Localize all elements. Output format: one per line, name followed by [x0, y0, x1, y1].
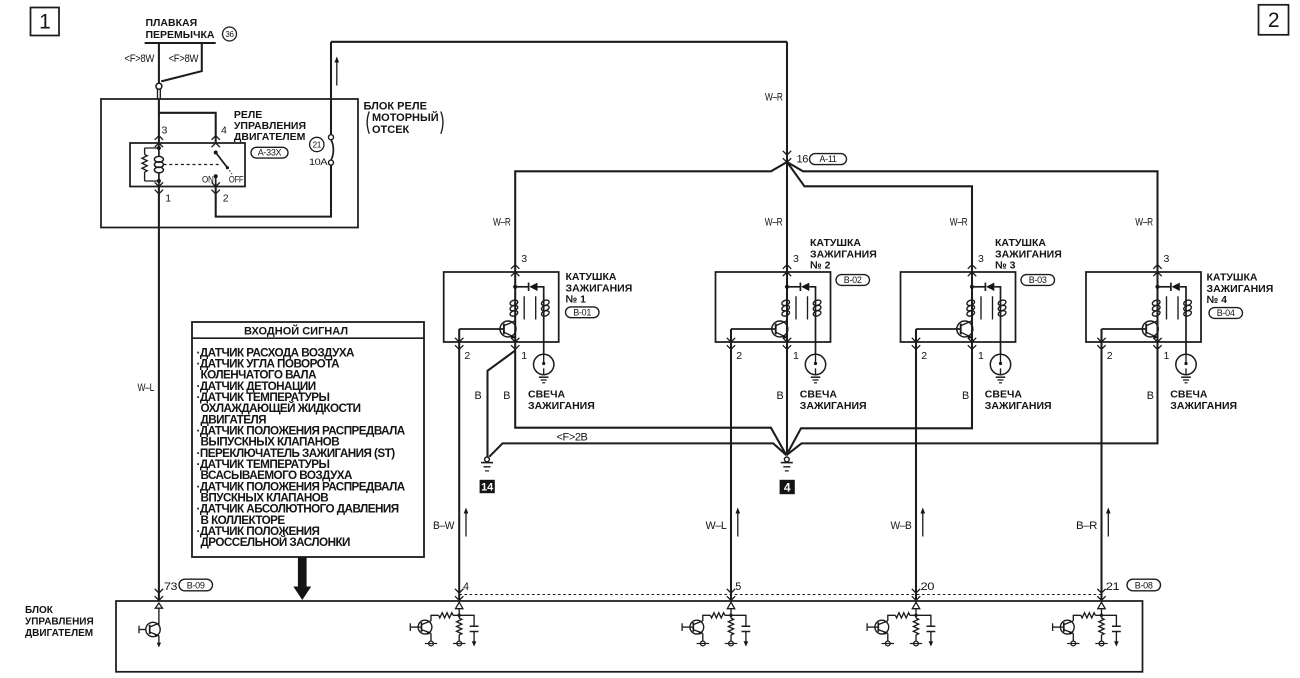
svg-text:W–R: W–R — [493, 217, 511, 229]
svg-text:21: 21 — [312, 140, 321, 150]
coil 3 pin 3 chevrons — [968, 265, 976, 277]
flow arrow W-L wire — [736, 508, 741, 537]
flow arrow B-W wire — [464, 508, 469, 537]
svg-text:W–R: W–R — [765, 91, 783, 103]
page index box 2 — [1259, 5, 1289, 35]
svg-text:2: 2 — [1107, 350, 1113, 362]
svg-text:2: 2 — [223, 193, 229, 205]
svg-text:2: 2 — [1268, 9, 1279, 32]
coil 1 pin 2 chevrons — [455, 338, 463, 350]
svg-text:3: 3 — [162, 124, 168, 136]
svg-text:ДВИГАТЕЛЕМ: ДВИГАТЕЛЕМ — [234, 131, 306, 143]
svg-text:A-33X: A-33X — [258, 148, 282, 158]
svg-text:ПЕРЕМЫЧКА: ПЕРЕМЫЧКА — [146, 29, 215, 41]
wire coil 1 pin 1 to ground bus A — [515, 342, 786, 455]
ECU pin 73 driver transistor — [139, 603, 163, 647]
coil 4 pin 1 chevrons — [1153, 338, 1161, 350]
ignition coil 4 B-04 — [1086, 272, 1201, 342]
coil 1 tag B-01 — [566, 307, 600, 318]
svg-text:B: B — [503, 390, 510, 402]
ECU pin 21 driver cell — [1053, 602, 1121, 646]
svg-text:СВЕЧА: СВЕЧА — [800, 389, 838, 401]
svg-text:1: 1 — [165, 193, 171, 205]
coil 4 tag B-04 — [1209, 308, 1243, 319]
ignition coil 3 B-03 — [901, 272, 1016, 342]
fuse 21 symbol — [329, 135, 334, 140]
wire relay pin 1 to ECU pin 73 — [158, 187, 160, 602]
svg-text:A-11: A-11 — [819, 154, 836, 164]
ECU pin 20 driver cell — [867, 602, 935, 646]
fusible link bus bar — [145, 42, 216, 44]
coil 4 pin 2 chevrons — [1097, 338, 1105, 350]
ECU pin 5 chevrons — [727, 589, 735, 601]
svg-text:МОТОРНЫЙ: МОТОРНЫЙ — [372, 111, 439, 124]
svg-text:W–R: W–R — [1135, 217, 1153, 229]
ECU box — [116, 601, 1143, 672]
svg-text:B–R: B–R — [1076, 520, 1098, 532]
circled 21 fuse number — [310, 137, 324, 151]
svg-text:3: 3 — [978, 253, 984, 265]
ECU pin 5 driver cell — [682, 602, 750, 646]
svg-text:№ 3: № 3 — [995, 260, 1016, 272]
wire coil 2 pin 1 to ground 4 — [786, 342, 788, 455]
coil 1 pin 1 chevrons — [511, 338, 519, 350]
relay pin 2 chevrons — [212, 182, 220, 194]
svg-text:№ 2: № 2 — [810, 260, 831, 272]
node 16 connector chevrons — [783, 151, 791, 163]
svg-text:ВХОДНОЙ СИГНАЛ: ВХОДНОЙ СИГНАЛ — [244, 325, 348, 338]
big input arrow — [293, 558, 311, 601]
relay resistor — [145, 148, 159, 181]
relay block outer box — [101, 99, 358, 228]
ECU pin 4 driver cell — [410, 602, 478, 646]
svg-text:СВЕЧА: СВЕЧА — [528, 389, 566, 401]
wire node 16 fan to coil 1 — [515, 162, 787, 272]
svg-text:ПЛАВКАЯ: ПЛАВКАЯ — [146, 17, 198, 29]
svg-text:№ 4: № 4 — [1207, 294, 1228, 306]
svg-text:W–R: W–R — [950, 217, 968, 229]
svg-text:<F>8W: <F>8W — [125, 53, 156, 65]
coil 2 pin 2 chevrons — [727, 338, 735, 350]
svg-text:B-08: B-08 — [1135, 580, 1153, 590]
input signal box — [192, 322, 424, 557]
relay pin 3 chevrons — [155, 136, 163, 148]
wire node 16 fan to coil 3 — [787, 162, 972, 272]
svg-text:<F>8W: <F>8W — [169, 53, 200, 65]
svg-text:ЗАЖИГАНИЯ: ЗАЖИГАНИЯ — [528, 400, 595, 412]
svg-text:36: 36 — [225, 30, 234, 39]
ignition coil 2 B-02 — [716, 272, 831, 342]
svg-text:B-09: B-09 — [187, 580, 205, 590]
ECU tag B-09 — [179, 579, 213, 591]
svg-text:№ 1: № 1 — [566, 294, 587, 306]
svg-text:СВЕЧА: СВЕЧА — [1170, 389, 1208, 401]
svg-text:4: 4 — [463, 581, 469, 593]
svg-text:3: 3 — [793, 253, 799, 265]
ECU pin 4 chevrons — [455, 589, 463, 601]
ECU pin 21 chevrons — [1097, 589, 1105, 601]
coil 3 pin 2 chevrons — [912, 338, 920, 350]
coil 1 pin 3 chevrons — [511, 265, 519, 277]
svg-text:B: B — [777, 390, 784, 402]
svg-text:1: 1 — [1164, 350, 1170, 362]
svg-text:ЗАЖИГАНИЯ: ЗАЖИГАНИЯ — [810, 248, 877, 260]
coil 2 tag B-02 — [836, 275, 870, 286]
relay pin 1 chevrons — [155, 182, 163, 194]
svg-text:B-04: B-04 — [1217, 308, 1235, 318]
relay coil winding — [154, 156, 163, 162]
svg-text:14: 14 — [481, 482, 494, 494]
wire coil 3 pin 1 to ground bus A — [786, 342, 972, 455]
svg-text:W–R: W–R — [765, 217, 783, 229]
wire fusible link left drop — [158, 43, 160, 83]
wire terminal to relay pin 3 — [158, 99, 160, 143]
flow arrow W-B wire — [921, 508, 926, 537]
svg-text:КАТУШКА: КАТУШКА — [810, 237, 861, 249]
relay coil branch wire — [158, 143, 160, 157]
svg-text:ЗАЖИГАНИЯ: ЗАЖИГАНИЯ — [1170, 400, 1237, 412]
spark plug 1 — [534, 342, 554, 383]
svg-text:3: 3 — [1164, 253, 1170, 265]
svg-text:2: 2 — [464, 350, 470, 362]
wire ground 14 to bus B — [489, 443, 786, 456]
spark plug 2 — [805, 342, 825, 383]
svg-text:4: 4 — [221, 124, 227, 136]
svg-text:1: 1 — [978, 350, 984, 362]
svg-text:OFF: OFF — [229, 174, 244, 185]
wire node 16 fan to coil 4 — [787, 162, 1158, 272]
relay connector tag A-33X — [251, 147, 288, 158]
circled 36 — [223, 27, 237, 41]
wire relay pin 2 to fuse — [216, 165, 331, 217]
ECU pin 20 chevrons — [912, 589, 920, 601]
svg-text:B: B — [475, 390, 482, 402]
ground 14 — [481, 457, 493, 471]
wire coil 3 pin 2 to ECU pin 20 — [915, 342, 917, 601]
svg-text:<F>2B: <F>2B — [557, 431, 588, 443]
svg-text:УПРАВЛЕНИЯ: УПРАВЛЕНИЯ — [25, 617, 94, 628]
top W-R bus — [331, 41, 787, 43]
svg-text:20: 20 — [921, 581, 935, 593]
svg-text:2: 2 — [921, 350, 927, 362]
svg-text:ДВИГАТЕЛЕМ: ДВИГАТЕЛЕМ — [25, 628, 93, 639]
node 16 tag A-11 — [810, 154, 847, 165]
flow arrow on relay feed — [335, 57, 340, 86]
coil 2 pin 1 chevrons — [783, 338, 791, 350]
relay pin 4 chevrons — [212, 136, 220, 148]
svg-text:1: 1 — [521, 350, 527, 362]
svg-text:БЛОК: БЛОК — [25, 605, 54, 616]
page index box 1 — [31, 8, 60, 36]
flow arrow B-R wire — [1106, 508, 1111, 537]
svg-text:5: 5 — [735, 581, 741, 593]
svg-text:W–L: W–L — [138, 382, 155, 394]
big parentheses — [367, 112, 443, 134]
main W-R riser to node 16 — [786, 42, 788, 272]
spark plug 3 — [990, 342, 1010, 383]
svg-text:B-03: B-03 — [1029, 275, 1047, 285]
wire coil 4 pin 1 to ground bus B — [786, 342, 1157, 455]
svg-text:3: 3 — [521, 253, 527, 265]
spark plug 4 — [1176, 342, 1196, 383]
relay actuation dashed link — [164, 164, 220, 166]
svg-text:ДРОССЕЛЬНОЙ ЗАСЛОНКИ: ДРОССЕЛЬНОЙ ЗАСЛОНКИ — [201, 536, 351, 549]
svg-text:B-01: B-01 — [573, 307, 591, 317]
wire coil 4 pin 2 to ECU pin 21 — [1100, 342, 1102, 601]
wire branch to relay pin 4 — [159, 113, 216, 143]
svg-text:16: 16 — [797, 154, 809, 166]
svg-text:B-02: B-02 — [844, 275, 862, 285]
svg-text:ЗАЖИГАНИЯ: ЗАЖИГАНИЯ — [985, 400, 1052, 412]
svg-text:B: B — [962, 390, 969, 402]
svg-text:ЗАЖИГАНИЯ: ЗАЖИГАНИЯ — [1207, 283, 1274, 295]
connector terminal bullet — [156, 83, 162, 89]
dashed connector line B-08 — [459, 594, 1101, 596]
relay coil junction dots — [157, 146, 161, 150]
ground 4 — [781, 457, 793, 471]
svg-text:10A: 10A — [309, 157, 328, 168]
engine control relay inner box A-33X — [130, 143, 245, 187]
svg-text:СВЕЧА: СВЕЧА — [985, 389, 1023, 401]
relay switch contact — [214, 151, 218, 155]
svg-text:73: 73 — [164, 581, 177, 593]
coil 3 pin 1 chevrons — [968, 338, 976, 350]
ECU tag B-08 — [1127, 579, 1161, 591]
svg-text:ЗАЖИГАНИЯ: ЗАЖИГАНИЯ — [800, 400, 867, 412]
svg-text:БЛОК РЕЛЕ: БЛОК РЕЛЕ — [364, 101, 427, 113]
ignition coil 1 B-01 — [444, 272, 559, 342]
svg-text:ЗАЖИГАНИЯ: ЗАЖИГАНИЯ — [995, 248, 1062, 260]
svg-text:КАТУШКА: КАТУШКА — [1207, 272, 1258, 284]
wire fusible link right drop — [161, 43, 202, 81]
svg-text:ЗАЖИГАНИЯ: ЗАЖИГАНИЯ — [566, 282, 633, 294]
svg-text:21: 21 — [1106, 581, 1120, 593]
svg-text:4: 4 — [784, 480, 791, 494]
ground 4 tag — [780, 480, 795, 495]
svg-text:ОТСЕК: ОТСЕК — [372, 124, 410, 136]
svg-text:2: 2 — [736, 350, 742, 362]
ECU pin 73 chevrons — [155, 589, 163, 601]
wire fuse to top bus — [330, 42, 332, 135]
svg-text:КАТУШКА: КАТУШКА — [566, 271, 617, 283]
svg-text:1: 1 — [39, 11, 50, 34]
ground 14 tag — [480, 480, 495, 494]
svg-text:W–B: W–B — [891, 520, 912, 532]
wire coil 2 pin 2 to ECU pin 5 — [730, 342, 732, 601]
coil 3 tag B-03 — [1021, 275, 1055, 286]
svg-text:W–L: W–L — [706, 520, 727, 532]
coil 4 pin 3 chevrons — [1153, 265, 1161, 277]
wire coil 1 pin 1 to ground 14 — [488, 351, 516, 457]
svg-text:B: B — [1147, 390, 1154, 402]
coil 2 pin 3 chevrons — [783, 265, 791, 277]
svg-text:B–W: B–W — [433, 520, 455, 532]
svg-text:1: 1 — [793, 350, 799, 362]
wire coil 1 pin 2 to ECU pin 4 — [458, 342, 460, 601]
svg-text:КАТУШКА: КАТУШКА — [995, 237, 1046, 249]
